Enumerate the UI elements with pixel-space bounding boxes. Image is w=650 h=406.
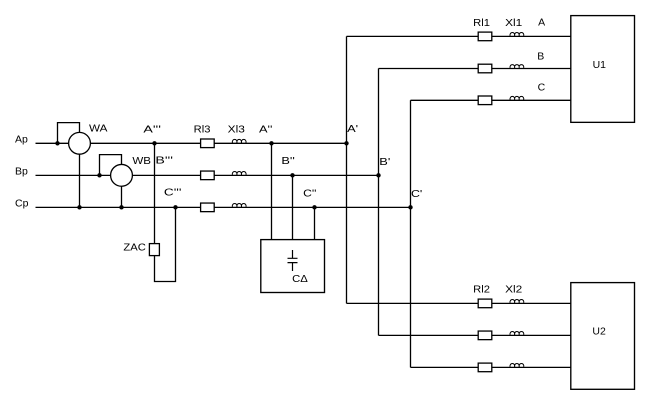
inductor Xl2 phase A [510,300,524,304]
node A''' [152,141,156,145]
wire A' vertical bus [346,36,348,303]
inductor Xl2 phase C [510,364,524,368]
resistor Rl1 phase A [478,32,492,41]
svg-text:C'': C'' [303,187,316,199]
box U1 [571,16,635,123]
svg-text:A'': A'' [259,124,272,136]
wire A''' to ZAC [154,143,156,243]
svg-text:C''': C''' [164,187,182,199]
svg-text:Xl1: Xl1 [505,17,522,29]
impedance ZAC [149,244,159,256]
node A'' [269,141,273,145]
wire B'' to capacitor bank [292,175,294,239]
svg-text:Rl3: Rl3 [194,124,211,136]
svg-text:Ap: Ap [15,134,28,146]
resistor Rl1 phase B [478,64,492,73]
wire B' vertical bus [378,69,380,336]
svg-text:A': A' [347,123,358,135]
inductor Xl3 phase C [232,203,246,207]
resistor Rl3 phase C [201,203,215,212]
wire U2 phase A line [347,302,571,304]
wire C' vertical bus [410,100,412,367]
wire U1 phase A line [347,35,571,37]
inductor Xl1 phase C [510,96,524,100]
node C'' [312,205,316,209]
junction WA voltage tap on Ap [55,141,59,145]
svg-text:B'': B'' [281,155,294,167]
wire U2 phase C line [411,366,571,368]
svg-text:A''': A''' [143,124,161,136]
junction WB voltage tap on Bp [97,173,101,177]
svg-text:WA: WA [89,122,107,134]
svg-text:Rl2: Rl2 [473,284,490,296]
capacitor CΔ symbol [288,250,298,271]
inductor Xl3 phase A [232,139,246,143]
wire WA voltage-coil loop [58,123,80,144]
wire Bp phase line [36,174,379,176]
wire ZAC to C''' [155,207,176,281]
inductor Xl1 phase B [510,65,524,69]
svg-text:B''': B''' [155,154,173,166]
svg-text:Bp: Bp [15,166,28,178]
svg-text:Rl1: Rl1 [473,17,490,29]
resistor Rl3 phase A [201,139,215,148]
wire Ap phase line [36,142,347,144]
svg-text:ZAC: ZAC [123,242,146,254]
wattmeter WA [69,132,91,154]
box U2 [571,283,635,390]
wire WB to Cp [121,186,123,207]
svg-text:CΔ: CΔ [292,273,308,285]
junction WA current return on Cp [77,205,81,209]
node C''' [173,205,177,209]
resistor Rl2 phase C [478,363,492,372]
svg-text:U2: U2 [592,326,606,338]
resistor Rl1 phase C [478,96,492,105]
node A' [344,141,348,145]
svg-text:C: C [538,81,546,93]
node C' [408,205,412,209]
svg-text:C': C' [411,188,422,200]
node B'' [290,173,294,177]
wire WA to Cp [79,154,81,207]
wire A'' to capacitor bank [271,143,273,239]
inductor Xl2 phase B [510,331,524,335]
junction WB current return on Cp [119,205,123,209]
wattmeter WB [111,164,133,186]
svg-text:B': B' [379,156,390,168]
resistor Rl2 phase B [478,331,492,340]
svg-text:Xl2: Xl2 [505,284,522,296]
svg-text:Cp: Cp [15,198,29,210]
wire U2 phase B line [379,334,571,336]
inductor Xl3 phase B [232,171,246,175]
svg-text:U1: U1 [593,59,607,71]
svg-text:Xl3: Xl3 [228,124,245,136]
wire U1 phase C line [411,99,571,101]
wire WB voltage-coil loop [100,155,122,176]
svg-text:WB: WB [132,155,151,167]
svg-text:B: B [537,50,544,62]
inductor Xl1 phase A [510,33,524,37]
wire U1 phase B line [379,68,571,70]
wire Cp phase line [36,206,411,208]
wire C'' to capacitor bank [314,207,316,239]
resistor Rl2 phase A [478,299,492,308]
resistor Rl3 phase B [201,171,215,180]
svg-text:A: A [538,17,545,29]
box capacitor bank CΔ [261,240,325,293]
node B' [376,173,380,177]
